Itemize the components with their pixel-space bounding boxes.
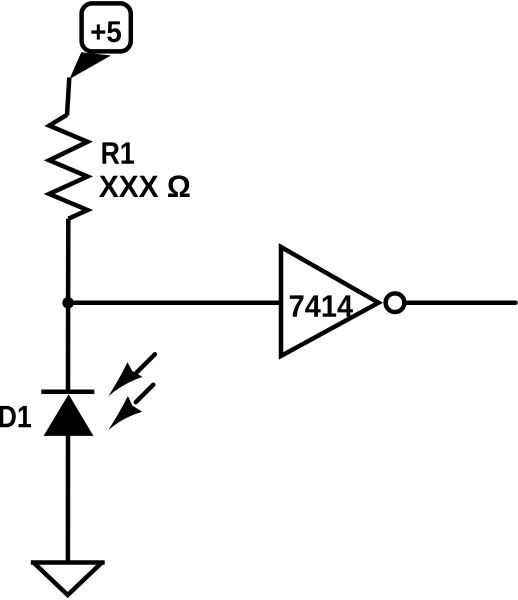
label +5 [91,21,121,42]
inverter U1 7414 [281,247,404,356]
label 7414 [290,295,353,316]
wire inverter output [407,300,516,305]
light arrow 2 into D1 [108,385,153,431]
ground [31,563,105,596]
resistor R1 [49,115,87,219]
label R1 [102,142,133,163]
label D1 [0,406,31,427]
value XXX Ω [99,175,190,197]
node A junction dot [62,297,74,309]
wire node A to inverter input [68,301,281,306]
wire R1 to node A [66,219,71,303]
wire +5 to R1 [67,78,69,116]
photodiode D1 [41,392,94,436]
light arrow 1 into D1 [108,354,155,396]
wire node A to D1 [66,303,71,392]
wire D1 to ground [66,435,71,563]
power +5 symbol [70,3,131,79]
